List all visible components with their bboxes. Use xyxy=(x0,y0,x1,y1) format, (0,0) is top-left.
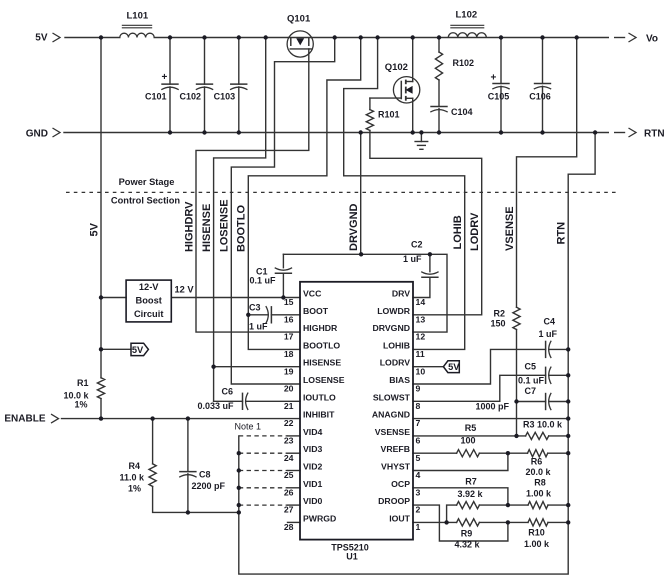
svg-text:C2: C2 xyxy=(411,240,423,250)
svg-text:VID2: VID2 xyxy=(303,462,322,472)
svg-text:1%: 1% xyxy=(74,400,87,410)
svg-text:INHIBIT: INHIBIT xyxy=(303,410,335,420)
svg-text:ENABLE: ENABLE xyxy=(4,414,45,425)
svg-text:5: 5 xyxy=(416,453,421,463)
svg-text:2200 pF: 2200 pF xyxy=(192,481,226,491)
svg-text:20: 20 xyxy=(284,384,294,394)
svg-text:DROOP: DROOP xyxy=(378,496,410,506)
svg-text:VHYST: VHYST xyxy=(381,462,411,472)
svg-text:C3: C3 xyxy=(249,303,261,313)
svg-text:R6: R6 xyxy=(531,457,543,467)
svg-text:BOOTLO: BOOTLO xyxy=(303,340,340,350)
svg-text:VID1: VID1 xyxy=(303,479,322,489)
svg-text:15: 15 xyxy=(284,297,294,307)
svg-text:OCP: OCP xyxy=(391,479,410,489)
svg-text:C4: C4 xyxy=(544,317,556,327)
svg-text:1.00 k: 1.00 k xyxy=(526,489,552,499)
svg-text:4.32 k: 4.32 k xyxy=(454,540,480,550)
svg-text:C7: C7 xyxy=(525,386,537,396)
svg-text:+: + xyxy=(162,72,168,83)
svg-text:Q101: Q101 xyxy=(287,14,311,25)
svg-text:R9: R9 xyxy=(461,529,473,539)
svg-text:R1: R1 xyxy=(77,378,89,388)
svg-text:SLOWST: SLOWST xyxy=(373,392,411,402)
svg-text:C8: C8 xyxy=(199,470,211,480)
svg-text:VID4: VID4 xyxy=(303,427,322,437)
svg-text:HIGHDRV: HIGHDRV xyxy=(183,201,195,252)
svg-text:4: 4 xyxy=(416,470,421,480)
svg-text:17: 17 xyxy=(284,332,294,342)
svg-text:C102: C102 xyxy=(179,92,201,102)
svg-text:R8: R8 xyxy=(534,478,546,488)
svg-text:8: 8 xyxy=(416,401,421,411)
svg-text:IOUTLO: IOUTLO xyxy=(303,392,336,402)
svg-text:3: 3 xyxy=(416,487,421,497)
svg-text:11.0 k: 11.0 k xyxy=(119,473,145,483)
svg-text:150: 150 xyxy=(490,319,505,329)
svg-text:R2: R2 xyxy=(493,309,505,319)
svg-text:7: 7 xyxy=(416,418,421,428)
svg-text:5V: 5V xyxy=(448,362,460,372)
svg-text:16: 16 xyxy=(284,314,294,324)
svg-text:9: 9 xyxy=(416,384,421,394)
svg-text:L102: L102 xyxy=(456,10,478,21)
svg-text:LOSENSE: LOSENSE xyxy=(303,375,345,385)
svg-text:VREFB: VREFB xyxy=(381,444,410,454)
svg-text:LODRV: LODRV xyxy=(380,358,410,368)
svg-text:VID3: VID3 xyxy=(303,444,322,454)
svg-text:LOHIB: LOHIB xyxy=(452,215,464,249)
svg-text:R5: R5 xyxy=(465,423,477,433)
svg-text:3.92 k: 3.92 k xyxy=(457,489,483,499)
svg-text:LOHIB: LOHIB xyxy=(383,340,410,350)
svg-text:R101: R101 xyxy=(378,110,400,120)
svg-text:HISENSE: HISENSE xyxy=(201,204,213,252)
svg-text:1 uF: 1 uF xyxy=(539,329,558,339)
svg-text:IOUT: IOUT xyxy=(389,513,410,523)
svg-text:R3 10.0 k: R3 10.0 k xyxy=(523,420,563,430)
svg-text:0.033 uF: 0.033 uF xyxy=(198,401,235,411)
svg-text:BOOT: BOOT xyxy=(303,306,329,316)
svg-text:C103: C103 xyxy=(214,92,236,102)
svg-text:DRVGND: DRVGND xyxy=(373,323,411,333)
svg-text:Boost: Boost xyxy=(136,296,162,306)
svg-text:VSENSE: VSENSE xyxy=(375,427,410,437)
svg-text:L101: L101 xyxy=(127,11,149,22)
svg-text:1 uF: 1 uF xyxy=(403,254,422,264)
svg-text:20.0 k: 20.0 k xyxy=(525,467,551,477)
svg-text:DRVGND: DRVGND xyxy=(348,203,360,251)
svg-text:22: 22 xyxy=(284,418,294,428)
svg-text:26: 26 xyxy=(284,487,294,497)
svg-text:+: + xyxy=(491,73,497,84)
svg-text:100: 100 xyxy=(460,436,475,446)
svg-text:10: 10 xyxy=(416,366,426,376)
svg-text:Vo: Vo xyxy=(646,34,658,45)
svg-text:12 V: 12 V xyxy=(175,285,195,295)
svg-text:R7: R7 xyxy=(465,477,477,487)
svg-text:28: 28 xyxy=(284,522,294,532)
svg-text:1: 1 xyxy=(416,522,421,532)
svg-text:12-V: 12-V xyxy=(139,282,159,292)
svg-text:HIGHDR: HIGHDR xyxy=(303,323,338,333)
svg-text:BOOTLO: BOOTLO xyxy=(236,205,248,252)
svg-text:RTN: RTN xyxy=(556,222,568,245)
svg-text:18: 18 xyxy=(284,349,294,359)
svg-text:C6: C6 xyxy=(222,387,234,397)
svg-text:13: 13 xyxy=(416,314,426,324)
svg-text:RTN: RTN xyxy=(644,129,665,140)
svg-text:C104: C104 xyxy=(451,107,473,117)
svg-text:R102: R102 xyxy=(453,58,475,68)
svg-text:2: 2 xyxy=(416,505,421,515)
svg-text:Q102: Q102 xyxy=(385,62,408,73)
svg-text:R4: R4 xyxy=(128,461,140,471)
svg-text:12: 12 xyxy=(416,332,426,342)
svg-text:6: 6 xyxy=(416,436,421,446)
svg-text:Note 1: Note 1 xyxy=(235,422,262,432)
svg-text:ANAGND: ANAGND xyxy=(372,410,410,420)
svg-text:24: 24 xyxy=(284,453,294,463)
svg-text:C105: C105 xyxy=(488,92,510,102)
svg-text:VCC: VCC xyxy=(303,289,322,299)
svg-text:1%: 1% xyxy=(128,484,141,494)
svg-text:25: 25 xyxy=(284,470,294,480)
svg-text:23: 23 xyxy=(284,436,294,446)
svg-text:C106: C106 xyxy=(529,92,551,102)
svg-text:5V: 5V xyxy=(132,345,144,355)
svg-text:1 uF: 1 uF xyxy=(249,322,268,332)
svg-text:C5: C5 xyxy=(525,362,537,372)
svg-text:GND: GND xyxy=(26,129,48,140)
svg-text:HISENSE: HISENSE xyxy=(303,358,341,368)
svg-text:14: 14 xyxy=(416,297,426,307)
svg-text:21: 21 xyxy=(284,401,294,411)
svg-text:LOWDR: LOWDR xyxy=(377,306,411,316)
svg-text:BIAS: BIAS xyxy=(389,375,410,385)
svg-text:0.1 uF: 0.1 uF xyxy=(249,276,276,286)
svg-text:1.00 k: 1.00 k xyxy=(524,539,550,549)
svg-text:Power Stage: Power Stage xyxy=(119,177,175,187)
svg-text:Control Section: Control Section xyxy=(111,196,181,206)
svg-text:1000 pF: 1000 pF xyxy=(476,402,510,412)
svg-text:DRV: DRV xyxy=(392,289,410,299)
svg-text:VID0: VID0 xyxy=(303,496,322,506)
svg-text:19: 19 xyxy=(284,366,294,376)
svg-text:11: 11 xyxy=(416,349,425,359)
svg-text:5V: 5V xyxy=(35,33,48,44)
svg-text:27: 27 xyxy=(284,505,294,515)
svg-text:LOSENSE: LOSENSE xyxy=(219,199,231,252)
svg-text:0.1 uF: 0.1 uF xyxy=(518,376,545,386)
svg-text:C101: C101 xyxy=(145,92,167,102)
svg-text:Circuit: Circuit xyxy=(134,309,163,319)
svg-text:LODRV: LODRV xyxy=(469,212,481,251)
svg-text:PWRGD: PWRGD xyxy=(303,513,336,523)
svg-text:5V: 5V xyxy=(88,222,100,236)
svg-text:U1: U1 xyxy=(346,552,358,562)
svg-text:R10: R10 xyxy=(528,528,545,538)
svg-text:VSENSE: VSENSE xyxy=(504,206,516,251)
